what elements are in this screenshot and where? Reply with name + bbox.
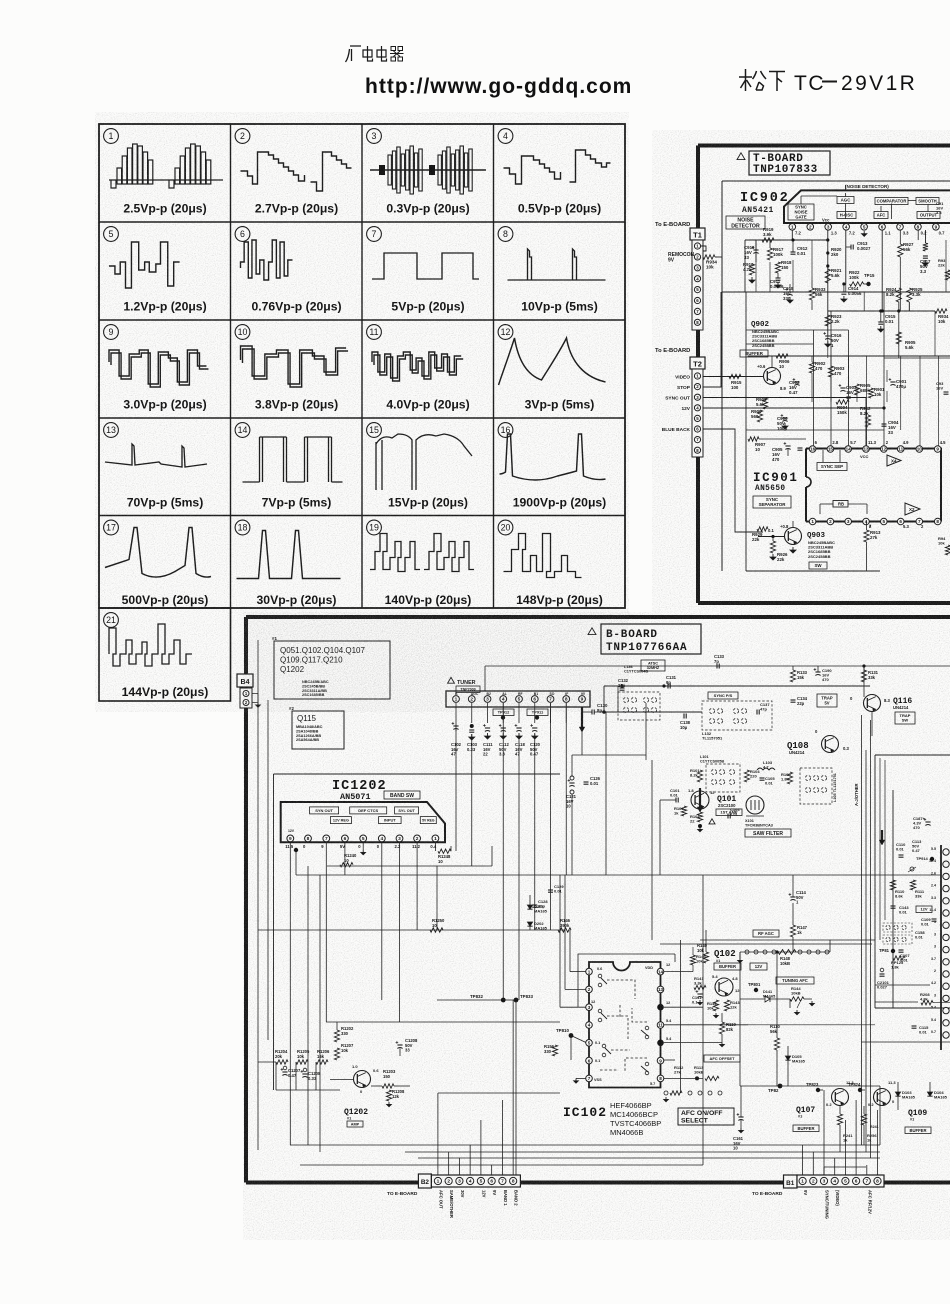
label To E-BOARD (T1) [655, 222, 690, 228]
capacitor C187 4.3V 470 [913, 816, 931, 830]
resistor R1240 10 (pin7) [340, 853, 357, 867]
IC902 internal block SYNC NOISE GATE [788, 204, 814, 220]
IC901 internal resistor block RB [820, 501, 867, 515]
svg-text:http://www.go-gddq.com: http://www.go-gddq.com [365, 75, 632, 98]
waveform 6: 0.76Vp-p (20μs) [235, 227, 341, 314]
9V arrow mid [697, 788, 703, 812]
label RF AGC [753, 930, 779, 937]
transformer T131 dashed box [618, 692, 660, 720]
transistor Q102 [712, 974, 740, 996]
coil L103 4.7 [757, 760, 775, 770]
IC102 pin annotations [591, 963, 672, 1086]
connector B1 to E-BOARD [784, 1175, 885, 1188]
capacitor C104 0.01 [728, 807, 740, 819]
resistor R141 3.3k [694, 976, 706, 990]
Q101 name label [717, 795, 736, 808]
waveform 2: 2.7Vp-p (20μs) [235, 129, 351, 216]
capacitor C916 50V 1 [823, 332, 842, 348]
transistor Q107 [826, 1080, 854, 1107]
B1 pin wires up [803, 1090, 878, 1175]
IC901 top pins [809, 446, 941, 453]
wire bus y330 and y344 [746, 330, 950, 358]
filter dashed pair 1 [883, 923, 912, 932]
TUNER connector [446, 691, 590, 707]
IC902 name text [740, 191, 790, 215]
capacitor C114 50V 1 [789, 875, 807, 905]
label 12V (right) [916, 906, 932, 913]
node junction pin3 chain [826, 230, 829, 335]
IC1202 internal block SYN OUT [310, 807, 339, 814]
capacitor C109 0.01 [921, 917, 937, 927]
waveform 12: 3Vp-p (5ms) [498, 325, 605, 412]
IC1202 internal block DEF CTCS [350, 807, 387, 814]
IC1202 name text [332, 779, 387, 802]
wire pin4 chain [845, 230, 847, 284]
TUNER label [448, 677, 480, 692]
pot R116 symbol [908, 867, 916, 872]
Q109 name label [908, 1109, 927, 1122]
header model label 松下 (hand-drawn) [739, 69, 785, 91]
B2 pin wires up [438, 1000, 560, 1175]
label TO E-BOARD (B1) [752, 1191, 783, 1197]
IC901 name text [753, 471, 799, 493]
capacitor C904 16V 33 [882, 420, 900, 435]
capacitor C138 10u [680, 714, 691, 730]
label SYNC P/S [708, 692, 738, 699]
capacitor C111 16V 22 [483, 724, 493, 757]
connector T2 to E-BOARD [690, 357, 705, 478]
resistor R119 82k [719, 1013, 736, 1047]
resistor R110 56k [770, 950, 780, 1086]
diode D105 MA165 [785, 1046, 805, 1086]
connector B2 to E-BOARD [418, 1174, 520, 1188]
IC902 internal block H-OSC [837, 212, 856, 219]
resistor R913 27k [864, 521, 881, 571]
resistor R924 8.2k [886, 287, 901, 311]
resistor R144 10kB pot [790, 986, 814, 1015]
resistor R921 5.6k [825, 268, 842, 283]
capacitor C902 16V 0.47 [789, 378, 800, 395]
capacitor C102 16V 47 [451, 722, 462, 851]
wire pin6 down [881, 230, 883, 311]
IC102 pin7 ground [574, 1078, 586, 1083]
transformer L101 dashed box [706, 764, 740, 792]
label REMOCON 9V [668, 252, 695, 264]
capacitor C133 7p [714, 654, 725, 669]
Q902 BUFFER label [740, 350, 768, 357]
wire bus y1022 and y944 [326, 944, 872, 1022]
resistor R912 8.2k [860, 406, 871, 427]
capacitor C120 50V 0.47 [530, 724, 541, 757]
Q116 name label [893, 697, 912, 710]
resistor R908 5.6k [756, 397, 768, 409]
diode D202 MA165 [527, 921, 547, 931]
SAW filter X101 [746, 796, 764, 816]
IC901 internal SYNC SEP block [817, 450, 847, 471]
transistor Q903 [758, 524, 802, 545]
transistor Q902 [703, 364, 786, 391]
resistor R905 5.6k [896, 311, 916, 358]
Q107 name label [796, 1106, 815, 1119]
IC102 internal switches and dashed lines [598, 974, 649, 1075]
waveform 15: 15Vp-p (20μs) [367, 423, 472, 510]
IC901 pin voltage labels bottom [869, 524, 924, 529]
capacitor C161 16V 10 [733, 1086, 744, 1151]
capacitor C914 0.0056 [841, 282, 862, 302]
capacitor C101 0.01 [660, 788, 680, 803]
wire bus y311 [828, 309, 935, 312]
svg-text:TC: TC [794, 72, 825, 95]
diode D141 MA165 [740, 990, 790, 1002]
waveform 17: 500Vp-p (20μs) [104, 520, 211, 607]
resistor R140 10k [697, 930, 709, 963]
Q102 name [714, 949, 736, 963]
capacitor C1207 0.47 [281, 1066, 301, 1078]
test points TP832 TP833 [470, 994, 533, 1175]
resistor R920 2k0 [831, 247, 842, 257]
test point TP823 [806, 1082, 823, 1092]
label BUFFER (Q107) [793, 1125, 819, 1132]
IC1202 internal block INPUT [379, 817, 402, 824]
right column long vertical wires [862, 715, 886, 1158]
resistor R917 100k [767, 240, 784, 260]
IC1202 internal block 12V REG [330, 817, 351, 824]
waveform cell 21 frame [99, 608, 231, 701]
label L105 TL1151751 vertical [833, 773, 837, 802]
label BUFFER (Q109) [905, 1127, 931, 1134]
wire bus y686 and RF input loop [604, 686, 870, 712]
capacitor C143 0.01 [891, 905, 910, 915]
right column horizontal stubs [700, 875, 950, 1042]
capacitor C121 16V 10 [566, 755, 577, 875]
resistor R104 220 [744, 769, 760, 782]
waveform 3: 0.3Vp-p (20μs) [367, 129, 486, 216]
IC902 pin voltage labels [795, 218, 945, 236]
IC902 internal block OUTPUT [917, 212, 940, 219]
capacitor C903 16V 10 [839, 384, 857, 400]
IC1202 internal block SYL OUT [395, 807, 419, 814]
R112 27k R113 10kB row [664, 1065, 722, 1102]
capacitor C131 9p [662, 675, 676, 689]
label TRAP SW [895, 712, 915, 724]
test point TP81 [879, 948, 895, 953]
Q1202 name label [344, 1108, 368, 1127]
resistor R925 3.3k [907, 287, 923, 311]
resistor R923 2.2k [825, 314, 842, 326]
capacitor C132 27p [618, 678, 629, 690]
capacitor C110 0.01 [896, 842, 906, 857]
capacitor C118 16V 47 [515, 724, 526, 757]
resistor R146 390k [558, 918, 571, 932]
B-BOARD outer border [246, 617, 950, 1183]
IC902 pin5 ground [862, 231, 867, 236]
wire verticals upper component field [756, 230, 925, 358]
capacitor C134 22p [791, 696, 808, 706]
transistor Q108 [815, 729, 849, 753]
B-BOARD label TNP107766AA [588, 624, 701, 654]
waveform 16: 1900Vp-p (20μs) [498, 423, 606, 510]
transformer L105 TL1151751 dashed [800, 768, 832, 804]
transistor Q101 1ST AMP [688, 788, 715, 809]
IC902 internal block title (NOISE DETECTOR) [845, 184, 889, 189]
capacitor C112 50V 3.3 [499, 724, 510, 757]
IC102 right wires [664, 972, 748, 1079]
label 12V (Q102) [750, 963, 767, 970]
resistor R241 1k [837, 1106, 853, 1152]
resistor R1207 10k [334, 1043, 354, 1060]
wire bus y430 [746, 429, 884, 431]
waveform 13: 70Vp-p (5ms) [104, 423, 207, 510]
wire 12V pin4 [703, 406, 886, 409]
wire SYNC OUT pin3 [703, 398, 866, 451]
resistor R256 1k [861, 1106, 878, 1145]
capacitor C105 0.01 [760, 776, 776, 786]
resistor R933 56k [809, 280, 826, 310]
resistor R901 10k [868, 387, 885, 398]
IC1202 pin5 ground [361, 842, 366, 855]
waveform 4: 0.5Vp-p (20μs) [498, 129, 610, 216]
resistor R902 470 [809, 356, 826, 373]
wire tuner pin verticals long [472, 703, 567, 1000]
T-BOARD inner frame [722, 181, 950, 571]
connector T1 to E-BOARD [690, 146, 705, 357]
9V feed arrow at tuner [579, 707, 585, 732]
waveform 11: 4.0Vp-p (20μs) [367, 325, 470, 412]
Q903 type list [807, 532, 835, 559]
resistor R928 small + capacitor C917 50V 3.3 [918, 230, 931, 274]
resistor R101 8.2k [690, 768, 703, 782]
IC102 left wires [560, 875, 586, 1007]
IC102 left pins 1-7 [586, 968, 593, 1081]
B2 pin signal labels vertical [438, 1190, 518, 1218]
label AFC ON/OFF SELECT [678, 1108, 734, 1125]
header URL http://www.go-gddq.com [365, 75, 632, 98]
waveform 18: 30Vp-p (20μs) [235, 520, 340, 607]
test point TP810 [556, 1028, 586, 1060]
capacitor C190 16V 470 [814, 666, 833, 682]
label TRAP 5V [817, 694, 837, 707]
diode D203 MA165 [527, 895, 547, 914]
B1 pin signal labels vertical [803, 1190, 872, 1219]
transistor Q902 type list [751, 321, 779, 348]
wire verticals x606 x652 [606, 712, 652, 940]
resistor R1204 20k [275, 1049, 288, 1064]
clipped IF IC body right edge [929, 845, 949, 1050]
transistor Q109 [868, 1080, 896, 1107]
resistor R910 4.7k [743, 262, 755, 283]
connector B4 [237, 674, 260, 708]
waveform 7: 5Vp-p (20μs) [367, 227, 479, 314]
capacitor C911 0.0056 [770, 273, 784, 289]
resistor R905 680k [854, 383, 871, 395]
coil L136 ATSC 32MHZ [624, 660, 665, 673]
Q903 SW label [809, 562, 827, 569]
capacitor C103 0.33 [467, 724, 478, 752]
note box 2 transistor list Q115 [289, 706, 344, 749]
label To E-BOARD (T2) [655, 348, 690, 354]
capacitor C141 0.1 [692, 990, 703, 1005]
resistor R929 22k [752, 527, 768, 542]
wire verticals Q902 field [812, 356, 939, 450]
resistor R1202 330 [334, 1022, 354, 1042]
resistor R103 22 test point P103 [690, 812, 715, 832]
capacitor C910 16V 33 [744, 240, 759, 262]
resistor R111 33k [910, 880, 924, 899]
IC1202 body outline [281, 802, 445, 842]
capacitor C128 30p mid [532, 899, 548, 909]
resistor R900 560 [751, 409, 763, 422]
long vertical wires left section [258, 640, 320, 1152]
test point TP824 [848, 1082, 865, 1092]
test point TP82 [740, 1084, 880, 1093]
T-BOARD outer border [698, 146, 950, 604]
resistor R934 10k (T1 pin2) [703, 255, 722, 270]
resistor R922 100k [849, 270, 864, 286]
waveform 5: 1.2Vp-p (20μs) [104, 227, 207, 314]
wire right edge verticals [935, 240, 946, 356]
waveform 21: 144Vp-p (20μs) [104, 613, 209, 699]
diode D103 MA165 [895, 1082, 915, 1110]
capacitor C113 50V 0.47 [912, 839, 922, 853]
right sub-board frame [875, 755, 950, 1008]
resistor R1208 12k [386, 1089, 405, 1107]
label BUFFER (Q102) [714, 963, 741, 970]
resistor R918 150 [775, 260, 792, 273]
wire bus y292 and long frame of lower subcircuit [722, 292, 950, 571]
long horizontal buses lower [258, 930, 880, 1165]
IC1202 internal block 5V REG [420, 817, 436, 824]
header model number TC-29V1R [794, 72, 917, 95]
capacitor C906 50V 100u [777, 414, 788, 431]
wire BLUE BACK pin6 [703, 429, 763, 532]
capacitor C915 0.01 [878, 309, 896, 332]
wire STOP pin2 to upper bus [703, 292, 721, 387]
wire mesh mid [437, 686, 880, 1165]
resistor R907 10 [748, 437, 806, 452]
waveform 10: 3.8Vp-p (20μs) [235, 325, 348, 412]
waveform 19: 140Vp-p (20μs) [367, 520, 474, 607]
IC1202 section enclosure frame [274, 774, 561, 1090]
capacitor C158 0.01 [915, 930, 925, 940]
capacitor C115 0.01 [912, 1025, 930, 1035]
svg-text:29V1R: 29V1R [841, 72, 917, 95]
capacitor C901 470u [889, 378, 907, 389]
resistor R149 10k (IC102 top right) [690, 947, 706, 972]
resistor R926 22k [770, 535, 788, 562]
resistor R1248 10 (pin1) [435, 842, 451, 864]
transistor Q1202 [330, 1064, 379, 1094]
capacitor C130 8p [582, 703, 612, 715]
X101 label TFCR3BNYCA3 SAW FILTER [745, 819, 791, 837]
resistor R147 1k [790, 903, 807, 952]
IC102 outer wire loop [578, 940, 681, 1093]
transformer L132 TL1157051 dashed [702, 701, 772, 730]
resistor RP125 1.8k [891, 956, 905, 970]
label 1ST AMP [716, 809, 742, 816]
IC102 body outline [589, 962, 661, 1088]
label L132 TL1157051 [702, 731, 723, 741]
resistor R934 10k (right edge) [935, 309, 949, 324]
capacitor C2101 0.027 [877, 968, 890, 989]
test point TP914 [916, 856, 934, 861]
oscilloscope waveform table outer frame [99, 124, 625, 608]
IC102 type list [610, 1101, 661, 1137]
coil L101 C1YTCS005B [700, 755, 724, 763]
wire bus pin1 down / horizontal y240 [745, 230, 828, 292]
capacitor C1208 50V 33 [396, 1038, 418, 1056]
IC1202 label BAND SW [384, 791, 420, 799]
test point TP912 [493, 709, 514, 720]
resistor R208 4.8k [920, 992, 933, 1005]
capacitor C137 47p [757, 702, 770, 715]
header logo text 广电电器 (hand-drawn strokes) [346, 46, 404, 62]
diode D104 MA165 [927, 1082, 947, 1100]
capacitor C912 0.01 [791, 238, 809, 256]
capacitor C126 0.01 [584, 776, 601, 786]
IC901 label SYNC SEPARATOR [753, 496, 791, 508]
resistor R903 470 [828, 356, 845, 377]
test point TP801 [748, 982, 761, 992]
resistor R927 56k [898, 230, 914, 311]
IC901 internal amp X4 [887, 455, 901, 466]
capacitor C129 0.01 mid [548, 884, 564, 894]
IC902 internal block AGC [837, 197, 854, 204]
label AFC OFFSET [704, 1055, 740, 1062]
test point TP911 [527, 709, 548, 720]
IC901 body outline [806, 449, 941, 522]
Q903 emitter ground [790, 547, 796, 553]
potentiometer R148 10kB row [738, 950, 830, 966]
9V arrow right column [879, 830, 885, 845]
resistor R110 8.6k [890, 880, 905, 899]
wire 9V bus to L101 [572, 720, 646, 755]
wire Q903 collector up [792, 521, 794, 528]
IC902 function label NOISE DETECTOR [726, 216, 765, 229]
resistor R906 10 [772, 354, 790, 369]
Q108 name label [787, 741, 809, 755]
capacitor C905 16V 470 [772, 442, 803, 462]
T2 pin labels VIDEO STOP SYNC OUT 12V BLUE BACK [662, 375, 691, 434]
IC902 internal block COMPARATOR [875, 198, 908, 205]
vertical label A-J/OTHER right [854, 783, 859, 806]
capacitor C913 0.0027 [846, 241, 871, 251]
resistor R142 10k [707, 1000, 719, 1018]
IC902 internal wires [801, 185, 928, 220]
resistor R1205 10k [296, 1049, 310, 1064]
wire top bus y666 [485, 666, 950, 691]
resistor R133 15k [790, 666, 807, 682]
capacitor C918 16V 330 [783, 284, 794, 303]
IC901 internal amp X2 [905, 503, 920, 515]
T-BOARD label TNP107833 [737, 151, 830, 176]
waveform 9: 3.0Vp-p (20μs) [104, 325, 209, 412]
resistor R131 33k [861, 664, 878, 682]
wire bus y356 [748, 355, 950, 357]
IC102 name text [563, 1105, 607, 1120]
IC902 pins 1-9 [789, 224, 939, 231]
note box 1 transistor list Q051 Q102 Q104 Q107 [272, 636, 390, 699]
waveform 14: 7Vp-p (5ms) [235, 423, 342, 510]
IC1202 wires below pins [290, 842, 703, 1145]
IC902 internal block SMOOTH [916, 198, 939, 205]
label TUNING AFC [776, 977, 814, 984]
resistor R156 330 [544, 1044, 558, 1056]
waveform 20: 148Vp-p (20μs) [498, 520, 603, 607]
resistor R915 100 [729, 374, 742, 390]
capacitor C107 0.01 [899, 950, 911, 963]
IC901 pin voltage labels top [815, 440, 947, 459]
resistor R904 150k [836, 400, 849, 415]
